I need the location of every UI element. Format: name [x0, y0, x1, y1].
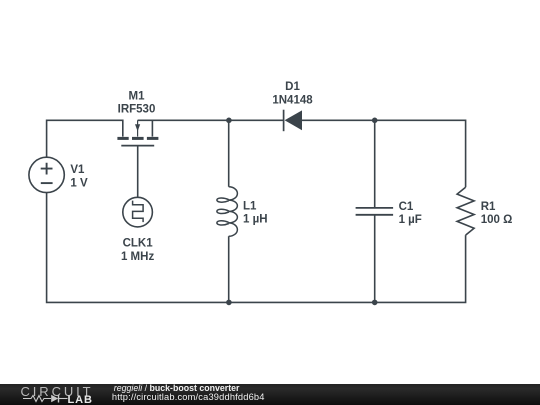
- svg-text:CLK1: CLK1: [123, 238, 154, 250]
- svg-text:IRF530: IRF530: [118, 104, 156, 116]
- svg-text:1N4148: 1N4148: [272, 95, 313, 107]
- svg-text:V1: V1: [70, 164, 85, 176]
- svg-text:1 MHz: 1 MHz: [121, 251, 154, 263]
- svg-text:C1: C1: [399, 201, 414, 213]
- svg-text:L1: L1: [243, 200, 257, 212]
- svg-text:1 µH: 1 µH: [243, 214, 268, 226]
- svg-text:M1: M1: [129, 91, 146, 103]
- svg-text:1 V: 1 V: [70, 177, 88, 189]
- svg-text:R1: R1: [481, 201, 496, 213]
- svg-text:100 Ω: 100 Ω: [481, 214, 513, 226]
- svg-text:1 µF: 1 µF: [399, 214, 422, 226]
- svg-text:D1: D1: [285, 81, 300, 93]
